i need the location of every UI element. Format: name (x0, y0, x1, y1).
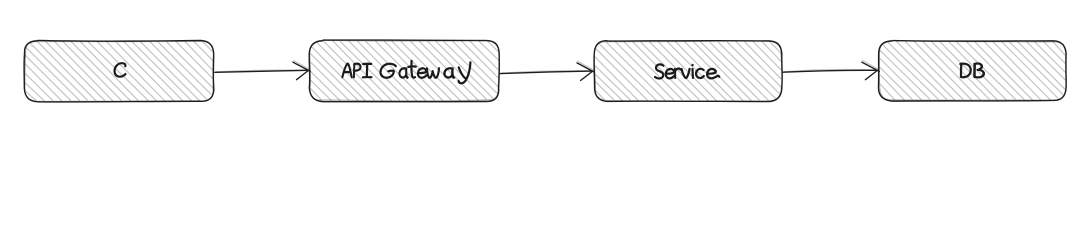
label Service (655, 64, 719, 78)
rect Service hachure fill (595, 41, 782, 100)
arrow Service to DB (783, 61, 880, 80)
arrow C to API Gateway (215, 61, 311, 80)
label API Gateway (342, 61, 470, 84)
label C (115, 63, 126, 76)
rect C hachure fill (25, 41, 213, 101)
rect DB border (878, 41, 1066, 102)
rect DB hachure fill (880, 41, 1065, 100)
arrow API Gateway to Service (500, 61, 595, 80)
rect API Gateway border (309, 40, 499, 102)
label DB (960, 63, 984, 77)
rect Service border (594, 41, 782, 102)
rect C border (24, 40, 214, 101)
rect API Gateway hachure fill (310, 41, 498, 101)
